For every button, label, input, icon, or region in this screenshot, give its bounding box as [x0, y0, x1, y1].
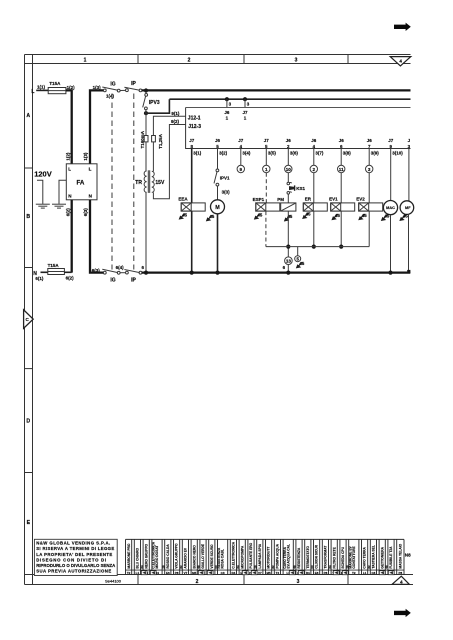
junction ER link: [312, 245, 316, 249]
fuse T1,25A: [152, 133, 163, 171]
wire KS1 to PM: [287, 194, 289, 203]
svg-text:Se44100: Se44100: [105, 578, 122, 583]
wire M to bus N: [217, 214, 219, 273]
junction J6-1 stub: [225, 97, 232, 107]
svg-text:3(6): 3(6): [290, 151, 299, 156]
svg-text:CAVO TERRA: CAVO TERRA: [363, 546, 367, 568]
svg-text:ROSA CABL: ROSA CABL: [221, 549, 225, 568]
svg-text:NERO GRUPPO: NERO GRUPPO: [144, 543, 148, 568]
wire ESP1 to link line (dashed): [265, 211, 267, 247]
svg-text:J7: J7: [388, 138, 394, 143]
svg-text:1: 1: [244, 116, 247, 121]
svg-text:3(2): 3(2): [219, 151, 228, 156]
pin J6-2 (J12 bottom): [286, 138, 299, 155]
svg-text:M: M: [215, 205, 220, 211]
svg-text:1(3): 1(3): [83, 152, 88, 161]
svg-text:P8: P8: [398, 571, 402, 575]
page-link arrow (top right): [394, 23, 411, 31]
svg-text:N: N: [68, 194, 71, 199]
svg-text:RESISTENZA: RESISTENZA: [217, 547, 221, 569]
svg-text:46: 46: [197, 565, 201, 569]
svg-text:6(2): 6(2): [66, 275, 75, 280]
switch IG (top, door interlock): [102, 81, 125, 98]
svg-text:6(3): 6(3): [83, 208, 88, 217]
stub to terminal 5 and ground: [297, 247, 299, 256]
junction above IPV3: [144, 88, 148, 92]
svg-text:EEA: EEA: [178, 197, 188, 202]
svg-text:IG: IG: [110, 81, 115, 87]
svg-text:R4: R4: [231, 571, 235, 575]
svg-text:3(3): 3(3): [222, 190, 231, 195]
junction EEA bus: [190, 271, 194, 275]
svg-text:C3: C3: [371, 571, 375, 575]
svg-text:VIOLA GRUPPO: VIOLA GRUPPO: [175, 543, 179, 569]
svg-text:3: 3: [295, 57, 298, 63]
terminal 3 (circled): [366, 165, 373, 172]
svg-text:L1: L1: [363, 571, 367, 575]
pin J7-4 (J12 bottom): [238, 138, 251, 155]
terminal 13 (circled): [285, 257, 293, 265]
wire ER to link line: [313, 211, 315, 247]
svg-text:J6: J6: [339, 138, 345, 143]
svg-text:MARRONE EV: MARRONE EV: [348, 545, 352, 568]
svg-text:IPV3: IPV3: [149, 100, 160, 106]
svg-text:GETTONIERA: GETTONIERA: [380, 546, 384, 568]
svg-text:15V: 15V: [155, 180, 165, 186]
switch IP (bottom): [124, 265, 144, 284]
svg-text:MASSA TELAIO: MASSA TELAIO: [399, 543, 403, 568]
wire fuse to FA filter, net 1(2): [66, 90, 72, 163]
svg-text:J7: J7: [189, 138, 195, 143]
wire FA N right, net 6(3): [83, 200, 104, 273]
label 6(3): [92, 268, 101, 273]
svg-text:J6: J6: [224, 110, 230, 115]
svg-text:EV.ACQUA CAL: EV.ACQUA CAL: [286, 544, 290, 569]
terminal 1 (circled): [263, 165, 270, 172]
svg-text:TASTIERA SEL: TASTIERA SEL: [372, 545, 376, 568]
wire EV2 to link line: [368, 211, 370, 247]
svg-text:V7: V7: [258, 571, 262, 575]
fuse T160mA: [140, 113, 148, 171]
svg-text:9: 9: [240, 167, 243, 172]
pin J-3 (J12 bottom): [408, 138, 411, 149]
svg-text:P8: P8: [324, 571, 328, 575]
terminal 10 (circled): [285, 165, 292, 172]
wire pin J6-2 to terminal 10: [287, 149, 289, 166]
svg-text:ER: ER: [305, 197, 312, 202]
svg-text:M5: M5: [192, 571, 196, 575]
svg-text:MICRO DOSAT: MICRO DOSAT: [155, 545, 159, 568]
svg-text:46: 46: [385, 565, 389, 569]
valve EV2: [356, 197, 383, 211]
ground ESP1 45: [254, 212, 263, 219]
svg-text:MICROPOMPA: MICROPOMPA: [240, 545, 244, 568]
svg-text:64: 64: [236, 565, 240, 569]
svg-text:EV1: EV1: [329, 197, 338, 202]
svg-text:ESP1: ESP1: [253, 197, 265, 202]
switch IPV1: [214, 169, 230, 186]
pin J6-6 (J12 bottom): [339, 138, 352, 155]
svg-text:TR: TR: [135, 180, 142, 186]
svg-text:3(4): 3(4): [242, 151, 251, 156]
svg-text:L: L: [31, 89, 34, 95]
svg-text:IP: IP: [131, 277, 136, 283]
svg-text:3: 3: [368, 167, 371, 172]
wire pin J-3 to MF: [408, 149, 410, 201]
svg-text:T160mA: T160mA: [140, 130, 145, 148]
wire N input: [41, 271, 48, 273]
svg-text:ARANCIO EV: ARANCIO EV: [184, 547, 188, 568]
lamp EEA: [178, 197, 205, 211]
svg-text:E6: E6: [166, 571, 170, 575]
svg-text:3: 3: [247, 102, 250, 107]
svg-text:PULSANTE ERO: PULSANTE ERO: [249, 542, 253, 568]
wire pin J7-4 to terminal 9: [240, 149, 242, 166]
svg-text:IP: IP: [131, 81, 136, 87]
svg-text:SI RISERVA A TERMINI DI LEGGE: SI RISERVA A TERMINI DI LEGGE: [36, 546, 114, 551]
svg-text:FA: FA: [77, 180, 85, 187]
wire 9(2) TR secondary to J12: [153, 119, 185, 199]
ground MAC 45: [381, 214, 390, 221]
wire MF to bus N: [408, 214, 410, 271]
svg-text:RIPRODURLO O DIVULGARLO SENZA: RIPRODURLO O DIVULGARLO SENZA: [36, 563, 115, 568]
ground MF 45: [399, 214, 408, 221]
svg-text:82: 82: [179, 565, 183, 569]
title block: N&W GLOBAL VENDING notice: [34, 539, 117, 575]
svg-text:6(3): 6(3): [92, 268, 101, 273]
svg-text:3(8): 3(8): [343, 151, 352, 156]
wire IPV3 to bus 2: [146, 99, 169, 113]
wire 9(1) T1,25A to J12: [153, 111, 185, 136]
switch IG (bottom): [102, 265, 125, 284]
pump PM: [277, 197, 296, 211]
svg-text:3(1): 3(1): [193, 151, 202, 156]
svg-text:LA PROPRIETA' DEL PRESENTE: LA PROPRIETA' DEL PRESENTE: [36, 552, 112, 557]
junction M bus: [215, 271, 219, 275]
junction MF bus (square): [407, 270, 410, 273]
svg-text:3(7): 3(7): [315, 151, 324, 156]
thermal cutout KS1: [287, 182, 306, 194]
svg-text:1: 1: [265, 167, 268, 172]
junction PM bus: [286, 271, 290, 275]
svg-text:N8: N8: [405, 553, 411, 558]
svg-text:CONTATTORE: CONTATTORE: [352, 545, 356, 568]
wire pin J6-6 to terminal 11: [340, 149, 342, 166]
svg-text:1(2): 1(2): [66, 152, 71, 161]
wire EV1 to link line: [340, 211, 342, 247]
svg-text:D: D: [26, 419, 30, 425]
switch IPV3: [143, 92, 160, 110]
wire pin J6-5 to IPV1: [217, 149, 219, 170]
wire-color legend table: [126, 539, 412, 575]
heater ER: [303, 197, 327, 211]
svg-text:4: 4: [399, 58, 402, 63]
ground ER 45: [302, 212, 311, 219]
svg-text:CAVO TERRA: CAVO TERRA: [283, 546, 287, 568]
svg-text:V7: V7: [184, 571, 188, 575]
svg-text:2: 2: [196, 579, 199, 585]
ground EEA 45: [179, 212, 188, 219]
svg-text:J7: J7: [238, 138, 244, 143]
bus 2 (to electronic board supply): [169, 98, 410, 100]
svg-text:IG: IG: [110, 277, 115, 283]
svg-text:J7: J7: [242, 110, 248, 115]
svg-text:ROSSO CALDA: ROSSO CALDA: [166, 544, 170, 569]
svg-text:J12-3: J12-3: [188, 124, 201, 130]
svg-text:T2: T2: [127, 571, 131, 575]
svg-text:MAC: MAC: [386, 206, 395, 210]
svg-text:BIANCO NERO: BIANCO NERO: [192, 545, 196, 569]
svg-text:4: 4: [400, 579, 403, 584]
svg-text:E6: E6: [315, 571, 319, 575]
junction IP/TR/bus: [144, 271, 148, 275]
svg-text:RESISTENZA: RESISTENZA: [297, 547, 301, 569]
svg-text:120V: 120V: [34, 170, 52, 179]
svg-text:T15A: T15A: [49, 81, 61, 86]
pin J7-1 (top): [242, 110, 248, 121]
wire terminal 10 to KS1: [287, 173, 289, 183]
svg-text:M5: M5: [267, 571, 271, 575]
valve EV1: [329, 197, 355, 211]
wire fuse to FA N: [64, 271, 71, 273]
svg-text:6: 6: [283, 265, 286, 270]
svg-text:CLIXON SICUR: CLIXON SICUR: [315, 544, 319, 568]
svg-text:J6: J6: [215, 138, 221, 143]
svg-text:3(5): 3(5): [268, 151, 277, 156]
wire terminal 1 to ESP1 (dashed): [265, 173, 267, 203]
wire pin J7-8 to EEA: [191, 149, 193, 203]
svg-text:1(4): 1(4): [106, 94, 115, 99]
fuse F1 T15A (line): [48, 81, 75, 94]
svg-text:B: B: [26, 214, 30, 220]
link line (loads common): [266, 246, 369, 248]
svg-text:C3: C3: [221, 571, 225, 575]
mechanical link dashed (IG): [111, 94, 113, 270]
wire terminal 3 to EV2: [368, 173, 370, 203]
svg-text:3(10): 3(10): [392, 151, 403, 156]
ground PM 45: [284, 214, 293, 221]
svg-text:J6: J6: [367, 138, 373, 143]
svg-text:FUSIBILE T2A: FUSIBILE T2A: [389, 546, 393, 569]
pin J7-9 (J12 bottom): [388, 138, 403, 155]
motor M: [211, 200, 225, 214]
mains filter FA: [66, 164, 97, 200]
page-link arrow (bottom right): [394, 609, 411, 617]
svg-text:2: 2: [313, 167, 316, 172]
ground EV1 45: [331, 213, 340, 220]
svg-text:6: 6: [142, 265, 145, 270]
pin J6-4 (J12 bottom): [311, 138, 324, 155]
bus L switched (top thick): [142, 89, 411, 91]
pin J7-8 (J12 bottom): [189, 138, 202, 155]
svg-text:J: J: [408, 138, 411, 143]
wire L input: [36, 89, 48, 91]
svg-text:L: L: [68, 167, 71, 172]
svg-text:00: 00: [310, 565, 314, 569]
svg-text:J6: J6: [311, 138, 317, 143]
svg-text:E: E: [27, 520, 31, 526]
svg-text:28: 28: [253, 565, 257, 569]
fuse F2 T15A (neutral): [48, 263, 75, 281]
wire terminal 11 to EV1: [340, 173, 342, 203]
svg-text:T2: T2: [276, 571, 280, 575]
connector board J12 box: [186, 108, 411, 149]
wire terminal 2 to ER: [313, 173, 315, 203]
svg-text:6(4): 6(4): [116, 265, 125, 270]
motor MAC: [383, 201, 397, 215]
svg-text:82: 82: [271, 565, 275, 569]
node L (line input): [31, 84, 45, 95]
svg-text:2: 2: [188, 57, 191, 63]
wire FA to IG switch, net 1(3): [83, 85, 104, 164]
svg-text:1(3): 1(3): [93, 85, 102, 90]
svg-text:T2: T2: [352, 571, 356, 575]
svg-text:PM: PM: [277, 197, 284, 202]
svg-text:TRASFORMAT: TRASFORMAT: [324, 546, 328, 569]
svg-text:46: 46: [293, 565, 297, 569]
svg-text:C.ELETTRONICA: C.ELETTRONICA: [152, 541, 156, 568]
svg-text:1: 1: [226, 116, 229, 121]
ground EV2 45: [358, 213, 367, 220]
svg-text:LAMPADA SPIA: LAMPADA SPIA: [258, 543, 262, 568]
svg-text:1: 1: [84, 57, 87, 63]
svg-text:T15A: T15A: [48, 263, 60, 268]
svg-text:GIALLO VERDE: GIALLO VERDE: [201, 543, 205, 569]
svg-text:KS1: KS1: [296, 186, 305, 191]
wire EEA to bus N: [191, 211, 193, 273]
svg-text:POMPA ACQUA: POMPA ACQUA: [276, 543, 280, 568]
svg-text:J12-1: J12-1: [188, 115, 201, 121]
wire pin J7-5 to terminal 1: [265, 149, 267, 166]
ground M 45: [206, 214, 215, 221]
svg-text:EV2: EV2: [356, 197, 365, 202]
svg-text:R4: R4: [306, 571, 310, 575]
svg-text:9(2): 9(2): [171, 119, 180, 124]
svg-text:3(9): 3(9): [371, 151, 380, 156]
svg-text:FILTRO RETE: FILTRO RETE: [332, 546, 336, 568]
svg-text:C.ELETTRONICA: C.ELETTRONICA: [232, 541, 236, 568]
node N (neutral input): [33, 271, 44, 281]
pin J7-5 (J12 bottom): [264, 138, 277, 155]
wire MAC to bus N: [390, 215, 392, 273]
terminal 5 (circled): [295, 256, 301, 262]
svg-text:J6: J6: [286, 138, 292, 143]
junction below IPV3: [144, 110, 148, 116]
svg-text:T1,25A: T1,25A: [158, 133, 163, 149]
heater ESP1: [253, 197, 280, 211]
svg-text:VERDE SCURO: VERDE SCURO: [210, 544, 214, 569]
svg-text:6(2): 6(2): [66, 208, 71, 217]
switch IP (top, door interlock): [124, 81, 142, 92]
wire IPV1 to motor M, net 3(3): [218, 186, 231, 200]
svg-text:3: 3: [297, 579, 300, 585]
junction PM link line: [286, 245, 290, 249]
ground terminal5 45: [296, 261, 305, 268]
svg-text:N: N: [89, 194, 92, 199]
terminal 9 (circled): [237, 165, 244, 172]
svg-text:J7: J7: [264, 138, 270, 143]
transformer TR primary: [135, 171, 146, 272]
svg-text:L1: L1: [136, 571, 140, 575]
svg-text:SCHEDA CPU: SCHEDA CPU: [341, 546, 345, 568]
label 120V: [34, 170, 52, 179]
transformer TR secondary 15V: [152, 171, 165, 192]
svg-text:82: 82: [367, 565, 371, 569]
earth stub 1: [36, 180, 50, 208]
svg-text:1(1): 1(1): [37, 84, 46, 89]
svg-text:SUA PREVIA AUTORIZZAZIONE: SUA PREVIA AUTORIZZAZIONE: [36, 569, 111, 574]
pin J6-5 (J12 bottom): [215, 138, 228, 155]
svg-text:MARRONE PRO: MARRONE PRO: [127, 543, 131, 569]
pin J6-1 (top): [224, 110, 230, 121]
svg-text:3: 3: [229, 102, 232, 107]
mechanical link dashed (IP): [133, 94, 135, 270]
svg-text:MOTORIDUTT: MOTORIDUTT: [267, 547, 271, 569]
svg-text:64: 64: [328, 565, 332, 569]
svg-text:11: 11: [339, 167, 344, 172]
svg-text:64: 64: [140, 565, 144, 569]
svg-text:N&W GLOBAL VENDING S.P.A.: N&W GLOBAL VENDING S.P.A.: [36, 541, 110, 546]
wire pin J7-9 to MAC: [390, 149, 392, 201]
pin J6-7 (J12 bottom): [367, 138, 380, 155]
junction J7-1 stub: [243, 97, 250, 107]
svg-text:10: 10: [286, 167, 292, 172]
svg-text:A: A: [26, 113, 30, 119]
wire FA N left, net 6(2): [66, 200, 72, 273]
svg-text:P8: P8: [175, 571, 179, 575]
terminal 2 (circled): [310, 165, 317, 172]
svg-text:13: 13: [286, 259, 292, 264]
svg-text:L: L: [89, 167, 92, 172]
wire pin J6-4 to terminal 2: [313, 149, 315, 166]
svg-text:1(2): 1(2): [67, 85, 76, 90]
bus N (bottom thick): [142, 271, 410, 273]
motor MF: [400, 201, 414, 215]
transformer TR core: [148, 170, 149, 193]
junction EV1 link: [339, 245, 343, 249]
svg-text:TERMOSTATO: TERMOSTATO: [306, 546, 310, 569]
svg-text:MF: MF: [405, 206, 411, 210]
svg-text:9(1): 9(1): [171, 111, 180, 116]
wire PM to bus N via terminal 13: [283, 211, 289, 273]
earth stub 2: [52, 180, 66, 208]
terminal 11 (circled): [338, 165, 345, 172]
svg-text:6(1): 6(1): [35, 276, 44, 281]
svg-text:DISEGNO CON DIVIETO DI: DISEGNO CON DIVIETO DI: [36, 557, 106, 562]
junction MAC bus: [388, 271, 392, 275]
wire pin J6-7 to terminal 3: [368, 149, 370, 166]
svg-text:28: 28: [161, 565, 165, 569]
svg-text:IPV1: IPV1: [220, 176, 230, 181]
